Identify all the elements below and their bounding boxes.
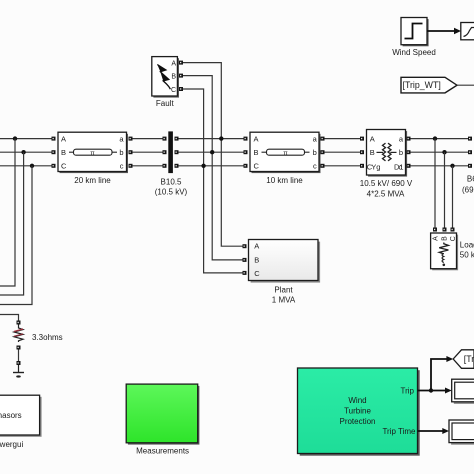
svg-text:powergui: powergui [0, 440, 23, 449]
svg-text:C: C [61, 162, 67, 171]
ports 10km left [244, 137, 248, 141]
svg-text:(10.5 kV): (10.5 kV) [155, 187, 188, 196]
transformer winding icon [377, 151, 384, 153]
resistor R 3.3ohms branch top port [17, 321, 21, 325]
resistor R 3.3ohms zigzag [14, 325, 23, 343]
svg-text:Yg: Yg [371, 162, 380, 171]
node B-left junction [21, 150, 25, 154]
busbar B10.5 left ports [163, 137, 167, 141]
svg-text:10 km line: 10 km line [266, 176, 303, 185]
wire bus B left [0, 151, 53, 153]
port 20km a out [129, 137, 133, 141]
wire drop load C [452, 166, 454, 228]
svg-text:Turbine: Turbine [344, 407, 371, 416]
wire transformer b to B690 [411, 151, 469, 153]
wire 20km to B10.5 A [133, 138, 164, 140]
svg-text:Fault: Fault [156, 99, 175, 108]
resistor bottom port [17, 346, 21, 350]
svg-text:A: A [171, 60, 176, 67]
transformer ports right [407, 137, 411, 141]
block powergui [0, 395, 40, 435]
node load A [433, 136, 437, 140]
plant ports [243, 244, 247, 248]
wire branch C down-left [0, 166, 32, 305]
busbar B10.5 right ports [175, 137, 179, 141]
block display2 [449, 420, 474, 443]
node load B [442, 150, 446, 154]
wire drop load B [444, 152, 446, 227]
svg-text:20 km line: 20 km line [74, 176, 111, 185]
block 20 km line [58, 132, 127, 171]
wire transformer a to B690 [411, 138, 469, 140]
wire 10km to transformer C [325, 165, 363, 167]
node fault C on bus [201, 164, 205, 168]
wire drop load A [434, 139, 436, 228]
svg-text:C: C [450, 236, 457, 241]
svg-text:B: B [442, 236, 449, 241]
svg-text:A: A [254, 242, 259, 251]
svg-text:B: B [254, 148, 259, 157]
wire Trip Time to display2 [418, 430, 443, 432]
block Load shadow [432, 235, 458, 271]
block 10 km line [250, 132, 319, 171]
block powergui shadow [0, 397, 42, 437]
load top ports [433, 228, 437, 232]
node fault A on bus [219, 136, 223, 140]
block rate limiter [461, 23, 474, 40]
svg-text:B: B [370, 148, 375, 157]
block Measurements [126, 384, 198, 443]
fault lightning icon [157, 65, 170, 90]
block Plant shadow [251, 242, 321, 283]
node A-left junction [13, 136, 17, 140]
svg-text:4*2.5 MVA: 4*2.5 MVA [367, 190, 405, 199]
wire branch A down-left [0, 139, 15, 286]
transformer ports left [360, 137, 364, 141]
wire fault A to plant A [183, 63, 244, 247]
svg-text:c: c [313, 162, 317, 171]
svg-text:C: C [254, 162, 260, 171]
wire 20km to B10.5 C [133, 165, 164, 167]
20km pi section icon [69, 151, 74, 153]
node trip junction [429, 388, 433, 392]
10km pi icon [262, 151, 267, 153]
svg-text:A: A [370, 135, 375, 144]
step icon [405, 24, 423, 39]
block Wind Speed step [401, 18, 427, 45]
port 20km B in [52, 150, 56, 154]
svg-text:1 MVA: 1 MVA [272, 295, 296, 304]
svg-text:B: B [254, 255, 259, 264]
svg-text:A: A [433, 236, 440, 241]
wire B10.5 to 10km B [179, 151, 246, 153]
wire 10km to transformer B [325, 151, 363, 153]
svg-text:Protection: Protection [339, 417, 375, 426]
ports 10km right [321, 137, 325, 141]
block Measurements shadow [128, 386, 199, 445]
svg-text:Phasors: Phasors [0, 411, 22, 420]
wire 10km to transformer A [325, 138, 363, 140]
load RL icon [439, 243, 448, 254]
block transformer T1 [367, 130, 406, 176]
svg-text:A: A [61, 135, 66, 144]
wire feed to 3.3ohms branch [0, 315, 19, 321]
svg-text:B10.5: B10.5 [161, 177, 182, 186]
port 20km A in [52, 137, 56, 141]
port 20km b out [129, 150, 133, 154]
svg-text:b: b [313, 148, 317, 157]
node fault B on bus [210, 150, 214, 154]
svg-text:50 kW: 50 kW [460, 251, 474, 260]
node load C [450, 164, 454, 168]
port 20km c out [129, 164, 133, 168]
node C-left junction [30, 164, 34, 168]
busbar B10.5 bar [168, 131, 173, 173]
block Fault shadow [153, 58, 179, 97]
svg-text:Wind Speed: Wind Speed [392, 48, 436, 57]
block transformer shadow [368, 131, 407, 177]
svg-text:Trip: Trip [401, 386, 415, 395]
wire 20km to B10.5 B [133, 151, 164, 153]
svg-text:Wind: Wind [348, 396, 366, 405]
svg-text:π: π [90, 150, 95, 157]
wire fault B to plant B [183, 76, 244, 260]
svg-text:3.3ohms: 3.3ohms [32, 333, 63, 342]
svg-text:Measurements: Measurements [136, 447, 189, 456]
wire bus A left [0, 138, 53, 140]
svg-text:B: B [61, 148, 66, 157]
wire trip up to goto [431, 359, 447, 391]
svg-text:[Trip_WT]: [Trip_WT] [464, 354, 474, 364]
wire wind speed to rate limiter [427, 30, 455, 32]
wire B10.5 to 10km C [179, 165, 246, 167]
block 10 km line shadow [252, 134, 321, 173]
svg-text:(690 V): (690 V) [462, 185, 474, 194]
Goto tag Trip_WT [453, 350, 474, 369]
svg-text:10.5 kV/ 690 V: 10.5 kV/ 690 V [360, 179, 413, 188]
ground port [17, 361, 21, 365]
From tag Trip_WT [401, 77, 457, 93]
svg-text:[Trip_WT]: [Trip_WT] [403, 80, 441, 90]
wire from tag to edge [457, 84, 474, 86]
svg-text:B690: B690 [467, 175, 474, 184]
svg-text:Plant: Plant [274, 285, 293, 294]
block Wind Speed shadow [403, 19, 429, 46]
fault ports [179, 61, 183, 65]
svg-text:b: b [399, 148, 403, 157]
wire bus C left [0, 165, 53, 167]
B690 edge ports [468, 137, 472, 141]
block display2 shadow [451, 422, 474, 445]
block Wind Turbine Protection [298, 368, 418, 454]
port 20km C in [52, 164, 56, 168]
wire Trip to display1 [418, 390, 446, 392]
block Load [431, 233, 457, 269]
block 20 km line shadow [60, 134, 129, 173]
block Fault [152, 57, 178, 96]
svg-text:Load: Load [460, 241, 474, 250]
wire branch B down-left [0, 152, 24, 295]
block display1 shadow [454, 381, 474, 404]
wire transformer c to B690 [411, 165, 469, 167]
svg-text:B: B [171, 74, 176, 81]
wire fault C to plant C [183, 89, 244, 273]
svg-text:C: C [254, 269, 260, 278]
svg-text:c: c [120, 162, 124, 171]
block Plant [249, 240, 319, 281]
block Wind Turbine Protection shadow [300, 370, 420, 456]
wire to ground [18, 350, 20, 362]
svg-text:c: c [399, 162, 403, 171]
ground symbol [18, 365, 20, 372]
svg-text:b: b [119, 148, 123, 157]
wire B10.5 to 10km A [179, 138, 246, 140]
svg-text:C: C [171, 87, 176, 94]
svg-text:A: A [254, 135, 259, 144]
svg-text:π: π [283, 150, 288, 157]
svg-text:Trip Time: Trip Time [382, 427, 416, 436]
block display1 [452, 379, 474, 402]
